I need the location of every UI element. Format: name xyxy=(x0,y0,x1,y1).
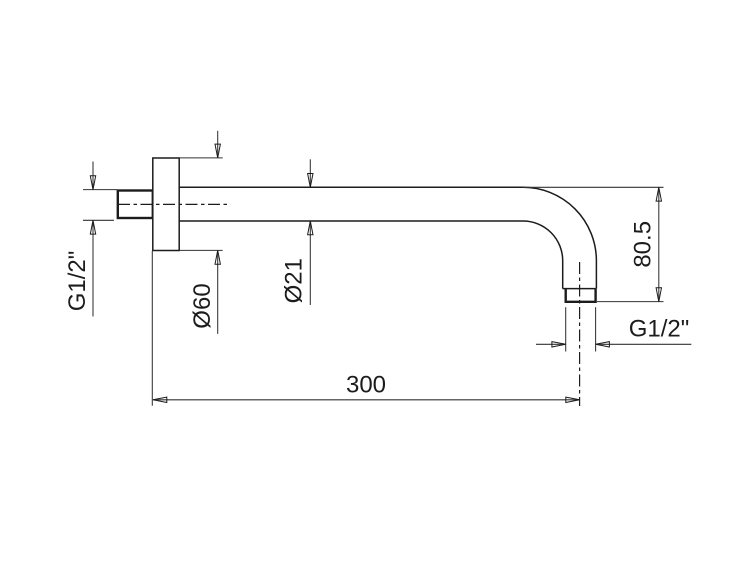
svg-text:G1/2": G1/2" xyxy=(64,251,91,312)
svg-text:Ø21: Ø21 xyxy=(281,258,308,303)
dimension 300: extension line (left, from flange) xyxy=(151,251,153,406)
shower arm tube (outline with 90° bend) xyxy=(179,187,596,288)
svg-text:300: 300 xyxy=(346,372,386,399)
dimension 80.5: dimension line xyxy=(658,187,660,301)
vertical centerline (outlet axis) xyxy=(579,262,581,406)
dimension G1/2" outlet: dimension lines xyxy=(536,343,691,345)
dimension Ø60: extension lines xyxy=(179,158,223,251)
svg-text:G1/2": G1/2" xyxy=(629,316,690,343)
dimension 80.5: arrowheads xyxy=(656,187,661,301)
dimension G1/2" outlet: arrowheads xyxy=(552,342,610,347)
dimension G1/2" outlet: extension lines xyxy=(566,307,596,351)
dimension 300: arrowheads xyxy=(153,397,580,402)
svg-text:Ø60: Ø60 xyxy=(189,283,216,328)
dimension Ø60: dimension line xyxy=(217,131,219,334)
dimension Ø21: arrowheads xyxy=(308,174,313,235)
svg-text:80.5: 80.5 xyxy=(630,221,657,268)
dimension 300: dimension line xyxy=(153,399,580,401)
dimension 80.5: extension lines xyxy=(523,187,664,301)
dimension G1/2" left: dimension line xyxy=(92,162,94,317)
outlet thread (G1/2) xyxy=(566,289,596,302)
dimension Ø21: dimension line xyxy=(309,159,311,305)
dimension Ø60: arrowheads xyxy=(215,144,220,264)
flange (escutcheon, Ø60) xyxy=(153,158,179,251)
thread nipple (wall connection G1/2) xyxy=(118,191,153,219)
horizontal centerline xyxy=(118,203,230,205)
dimension G1/2" left: extension lines xyxy=(83,190,117,221)
dimension G1/2" left: arrowheads xyxy=(90,176,95,234)
